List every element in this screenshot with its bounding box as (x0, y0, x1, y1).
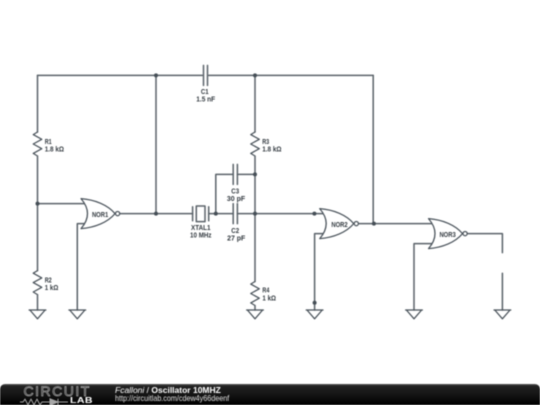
wire NOR1 output (120, 213, 192, 215)
footer title (115, 385, 221, 395)
svg-text:1.8 kΩ: 1.8 kΩ (45, 146, 65, 153)
CircuitLab logo text LAB (70, 396, 93, 405)
resistor R1 (33, 132, 42, 156)
wire C3 branch left (216, 174, 233, 213)
wire NOR1 upper input branch (38, 203, 87, 205)
wire NOR2 lower input to ground (315, 234, 326, 310)
wire XTAL1 to C2 (209, 213, 234, 215)
ground under R2 (29, 310, 46, 319)
wire NOR3 lower input to ground (414, 244, 434, 310)
wire top rail left segment (38, 74, 203, 76)
resistor R3 (251, 132, 260, 156)
crystal XTAL1 (193, 206, 209, 222)
svg-text:NOR3: NOR3 (439, 232, 455, 239)
ground under NOR1 input (69, 310, 86, 319)
wire R4 to ground (254, 306, 256, 311)
svg-text:R2: R2 (45, 277, 52, 284)
CircuitLab logo waveform resistor+diode (20, 398, 70, 405)
footer bar (0, 384, 540, 405)
wire NOR1 lower input to ground (77, 224, 86, 310)
wire R3 bottom to R4 (254, 156, 256, 282)
junction dot C3 branch (214, 212, 218, 216)
svg-text:1.8 kΩ: 1.8 kΩ (262, 146, 282, 153)
wire left rail lower (37, 295, 39, 310)
junction dot top rail at R3 (253, 73, 257, 77)
ground under R4 (247, 310, 264, 319)
wire left rail middle (37, 156, 39, 271)
wire C2 to NOR2 input (237, 213, 326, 215)
ground under NOR2 input (306, 310, 323, 319)
svg-text:1 kΩ: 1 kΩ (262, 295, 276, 302)
junction dot NOR1 output (154, 212, 158, 216)
junction dot top rail at feedback (154, 73, 158, 77)
junction dot NOR2 output feedback (372, 222, 376, 226)
svg-text:XTAL1: XTAL1 (191, 225, 211, 232)
junction dot left rail at NOR1 input (36, 202, 40, 206)
junction dot above NOR2 ground (313, 301, 317, 305)
junction dot NOR2 input (312, 212, 316, 216)
resistor R2 (33, 271, 42, 295)
capacitor C3 (233, 164, 237, 184)
wire NOR2 output (359, 223, 434, 225)
capacitor C1 (204, 65, 208, 85)
svg-text:1.5 nF: 1.5 nF (196, 97, 216, 104)
svg-text:C1: C1 (201, 89, 209, 96)
svg-text:10 MHz: 10 MHz (190, 232, 212, 239)
wire right feedback rail (372, 75, 374, 223)
NOR gate NOR3 (429, 219, 468, 249)
svg-text:1 kΩ: 1 kΩ (45, 285, 59, 292)
wire NOR3 output upper (467, 234, 502, 253)
ground under NOR3 input (406, 310, 423, 319)
CircuitLab logo text CIRCUIT (24, 383, 91, 399)
svg-text:R3: R3 (262, 139, 269, 146)
ground under NOR3 output (494, 310, 511, 319)
NOR gate NOR2 (320, 209, 359, 239)
svg-text:C3: C3 (231, 188, 239, 195)
svg-text:NOR1: NOR1 (92, 212, 108, 219)
wire left rail upper (37, 75, 39, 132)
junction dot main line at R3R4 (253, 212, 257, 216)
NOR gate NOR1 (81, 199, 120, 229)
wire NOR3 output lower segment (501, 273, 503, 310)
wire top rail right segment (209, 74, 374, 76)
footer url (115, 393, 229, 403)
svg-text:R4: R4 (262, 288, 269, 295)
resistor R4 (251, 282, 260, 306)
svg-text:30 pF: 30 pF (227, 196, 246, 203)
wire feedback mid vertical (155, 75, 157, 213)
svg-text:C2: C2 (231, 228, 239, 235)
svg-text:R1: R1 (45, 139, 52, 146)
svg-text:NOR2: NOR2 (331, 222, 347, 229)
wire C3 branch right (237, 173, 255, 175)
wire R3 top (254, 75, 256, 132)
svg-text:27 pF: 27 pF (227, 236, 246, 243)
capacitor C2 (233, 204, 237, 224)
junction dot C3 at R3R4 (253, 172, 257, 176)
